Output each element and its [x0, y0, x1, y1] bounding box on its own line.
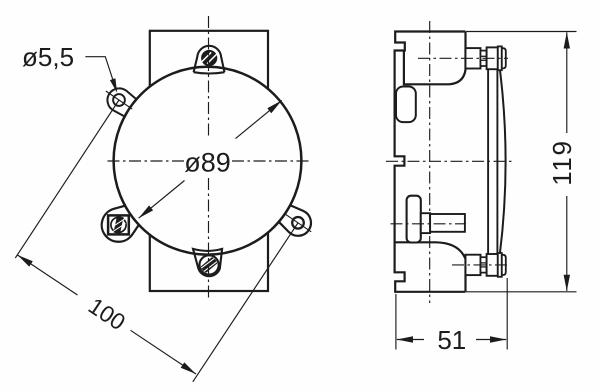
mounting lug lower-right (boss outline) [279, 205, 311, 236]
bottom bracket outline [395, 242, 466, 291]
extension line from lower-right hole [193, 223, 298, 382]
lower-left lug slot: square nut + slotted hole [108, 215, 129, 234]
adjustment T-bolt head [407, 196, 421, 243]
top screw head (slotted) [200, 50, 219, 66]
arrowhead 119 bottom [564, 275, 570, 291]
top spring washer [481, 51, 487, 66]
hole lower-right lug [292, 217, 304, 229]
housing body rectangle (front view) [150, 31, 268, 291]
arrowhead 51 left [397, 336, 413, 342]
top mounting bolt collar [466, 48, 481, 68]
top nut [487, 47, 498, 69]
arrowhead 100 left [18, 255, 33, 267]
top bolt end cap [502, 48, 506, 68]
T-bolt centerline [391, 223, 467, 225]
svg-text:119: 119 [547, 139, 577, 185]
bottom spring washer [481, 257, 487, 272]
side view vertical centerline [429, 21, 431, 303]
dimension line 119 [566, 32, 568, 133]
mounting lug upper-left (boss outline) [107, 88, 136, 116]
extension line 51 left [395, 294, 397, 350]
right edge of top block [404, 32, 466, 85]
extension line 51 right [506, 278, 508, 350]
arrowhead d89 lower left [139, 205, 154, 218]
bottom bolt end cap [502, 255, 506, 275]
axis tick through lower-right hole [285, 214, 311, 232]
lens retaining rim (vertical lines) [487, 47, 489, 276]
extension line from upper-left hole [15, 100, 119, 258]
top bolt centerline [418, 57, 508, 59]
lens curved face [498, 58, 505, 265]
leader arrowhead [110, 78, 117, 93]
front view horizontal centerline (broken at label) [108, 160, 187, 162]
side view body outline [395, 32, 466, 292]
dimension line d89 (diagonal) [139, 181, 185, 219]
dimension line 100 [18, 255, 78, 295]
bottom mounting bolt collar [466, 255, 481, 275]
lamp front circle d89 [114, 67, 302, 255]
top clamp tab [194, 46, 225, 74]
svg-text:51: 51 [437, 325, 466, 355]
side view horizontal centerline [386, 160, 514, 162]
arrowhead 51 right [490, 336, 506, 342]
bottom nut [487, 254, 498, 276]
bottom bolt centerline [452, 264, 508, 266]
extension line 119 bottom [466, 291, 577, 293]
bottom clamp tab [193, 249, 222, 276]
hole upper-left lug (d5.5) [113, 94, 125, 106]
top clamp plate edge [498, 46, 502, 70]
arrowhead d89 upper right [267, 100, 282, 113]
T-bolt collar [421, 213, 430, 233]
bottom screw head (slotted, hatched) [199, 255, 220, 275]
extension line 119 top [466, 31, 577, 33]
arrowhead 100 right [181, 362, 196, 374]
svg-text:ø89: ø89 [184, 148, 231, 178]
mounting lug lower-left (boss outline) [102, 206, 139, 242]
side lug (upper-left, edge-on) [396, 87, 416, 123]
front view vertical centerline (broken at label) [208, 16, 210, 137]
axis tick through upper-left hole [106, 91, 132, 109]
bottom clamp plate edge [498, 253, 502, 277]
leader line d5,5 [85, 57, 116, 90]
T-bolt shaft [430, 214, 465, 232]
svg-text:ø5,5: ø5,5 [22, 42, 74, 72]
dimension line 51 [397, 339, 424, 341]
arrowhead 119 top [564, 32, 570, 48]
